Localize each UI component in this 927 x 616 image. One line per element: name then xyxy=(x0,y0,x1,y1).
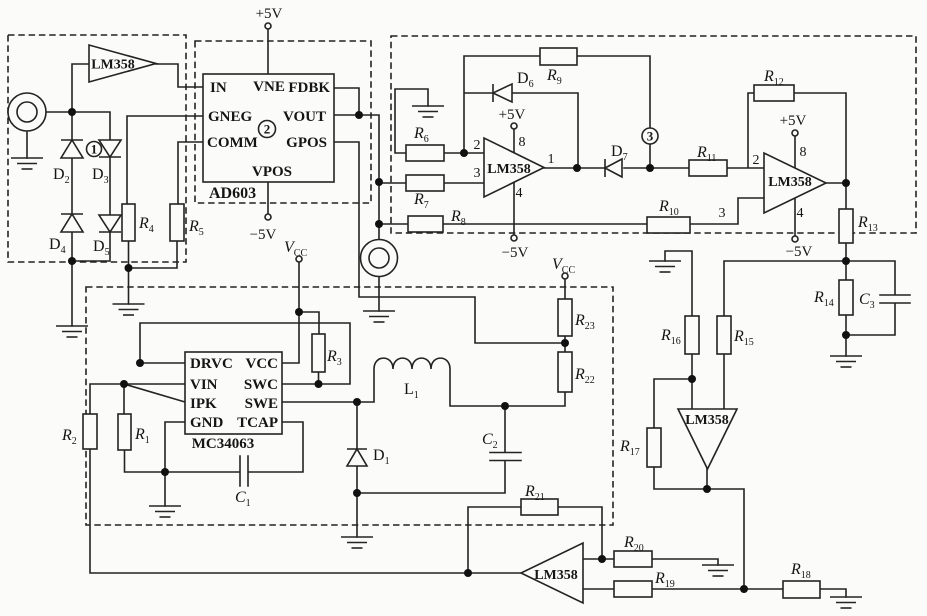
svg-text:R10: R10 xyxy=(658,198,679,218)
svg-text:LM358: LM358 xyxy=(685,413,729,428)
svg-text:R22: R22 xyxy=(574,366,595,386)
svg-text:SWC: SWC xyxy=(244,377,278,393)
svg-text:D4: D4 xyxy=(49,236,66,256)
svg-text:VCC: VCC xyxy=(552,256,575,276)
svg-text:C3: C3 xyxy=(859,291,875,311)
svg-text:1: 1 xyxy=(548,152,555,167)
svg-text:R14: R14 xyxy=(813,289,834,309)
svg-text:R4: R4 xyxy=(138,215,154,235)
svg-text:8: 8 xyxy=(800,145,807,160)
svg-text:VIN: VIN xyxy=(190,377,218,393)
svg-text:C2: C2 xyxy=(482,431,498,451)
svg-text:3: 3 xyxy=(719,206,726,221)
svg-text:VOUT: VOUT xyxy=(283,109,326,125)
svg-text:R3: R3 xyxy=(326,348,342,368)
svg-text:R18: R18 xyxy=(790,561,811,581)
svg-text:D2: D2 xyxy=(53,166,70,186)
svg-text:R17: R17 xyxy=(619,438,640,458)
svg-text:IPK: IPK xyxy=(190,396,217,412)
svg-text:−5V: −5V xyxy=(250,227,277,243)
svg-text:COMM: COMM xyxy=(207,135,258,151)
svg-text:MC34063: MC34063 xyxy=(192,436,255,452)
svg-text:D5: D5 xyxy=(93,238,110,258)
svg-text:R19: R19 xyxy=(654,570,675,590)
svg-text:DRVC: DRVC xyxy=(190,356,233,372)
svg-text:4: 4 xyxy=(797,206,804,221)
svg-text:VNE: VNE xyxy=(253,79,285,95)
svg-text:8: 8 xyxy=(519,135,526,150)
svg-text:−5V: −5V xyxy=(502,245,529,261)
svg-text:LM358: LM358 xyxy=(534,568,578,583)
svg-text:FDBK: FDBK xyxy=(288,80,330,96)
svg-text:D1: D1 xyxy=(373,447,390,467)
svg-text:+5V: +5V xyxy=(256,6,283,22)
svg-text:L1: L1 xyxy=(404,381,419,401)
svg-text:1: 1 xyxy=(91,142,98,157)
svg-text:VCC: VCC xyxy=(284,239,307,259)
svg-text:LM358: LM358 xyxy=(487,162,531,177)
svg-text:R5: R5 xyxy=(188,218,204,238)
svg-text:TCAP: TCAP xyxy=(237,415,278,431)
svg-text:LM358: LM358 xyxy=(91,58,135,73)
svg-text:VCC: VCC xyxy=(246,356,279,372)
svg-text:VPOS: VPOS xyxy=(252,164,292,180)
svg-text:R6: R6 xyxy=(413,125,429,145)
svg-text:R8: R8 xyxy=(450,208,466,228)
svg-text:GNEG: GNEG xyxy=(208,109,253,125)
svg-text:R7: R7 xyxy=(413,191,429,211)
svg-text:D6: D6 xyxy=(517,70,534,90)
svg-text:+5V: +5V xyxy=(780,113,807,129)
svg-text:IN: IN xyxy=(210,80,227,96)
svg-text:SWE: SWE xyxy=(245,396,278,412)
svg-text:LM358: LM358 xyxy=(768,175,812,190)
svg-text:R1: R1 xyxy=(134,426,150,446)
svg-text:R9: R9 xyxy=(546,67,562,87)
svg-text:GND: GND xyxy=(190,415,224,431)
svg-text:2: 2 xyxy=(474,138,481,153)
svg-text:GPOS: GPOS xyxy=(286,135,327,151)
svg-text:+5V: +5V xyxy=(499,107,526,123)
svg-text:4: 4 xyxy=(516,186,523,201)
svg-text:C1: C1 xyxy=(235,489,251,509)
svg-text:R23: R23 xyxy=(574,312,595,332)
svg-text:R15: R15 xyxy=(733,328,754,348)
svg-text:R2: R2 xyxy=(61,427,77,447)
svg-text:2: 2 xyxy=(753,153,760,168)
svg-text:D3: D3 xyxy=(92,166,109,186)
svg-text:3: 3 xyxy=(474,166,481,181)
svg-text:2: 2 xyxy=(264,122,271,137)
svg-text:R13: R13 xyxy=(857,214,878,234)
svg-text:3: 3 xyxy=(647,129,654,144)
svg-text:R16: R16 xyxy=(660,327,681,347)
svg-text:AD603: AD603 xyxy=(209,185,256,202)
svg-text:−5V: −5V xyxy=(786,244,813,260)
